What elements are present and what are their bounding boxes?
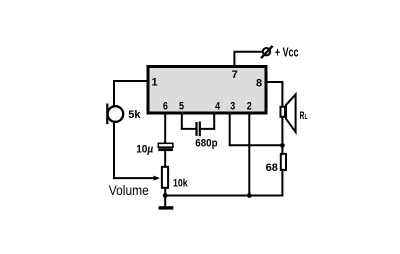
svg-text:68: 68 (266, 162, 278, 174)
resistor R3 68 (281, 145, 283, 153)
wire bottom bus (165, 195, 282, 197)
svg-text:680p: 680p (195, 138, 218, 150)
svg-text:10k: 10k (173, 178, 188, 190)
wire junction to ground (164, 196, 166, 207)
wire pin8 to speaker (266, 82, 282, 106)
svg-text:5: 5 (179, 101, 184, 113)
svg-text:Volume: Volume (109, 182, 149, 198)
wire resistor R3 to bottom bus (281, 171, 282, 196)
svg-text:1: 1 (151, 77, 157, 89)
wire pin3 to node A (230, 113, 283, 145)
wire pin6 to capacitor C1 (164, 113, 166, 144)
microphone M1 (107, 104, 123, 125)
wire speaker to node A (281, 118, 283, 145)
wire capacitor to potentiometer (164, 151, 166, 166)
wire microphone to volume arrow (114, 122, 155, 179)
capacitor C1 10u (polarized) (158, 143, 173, 151)
ground (159, 206, 174, 209)
potentiometer R2 10k (162, 167, 168, 188)
svg-text:10µ: 10µ (136, 143, 154, 155)
wire pin7 to Vcc terminal (234, 52, 263, 67)
node A junction speaker/resistor (280, 143, 285, 148)
wire pin5 to capacitor C2 (182, 113, 196, 129)
speaker LS1 (281, 94, 296, 132)
node junction below potentiometer (163, 193, 168, 198)
svg-text:7: 7 (232, 69, 238, 81)
svg-text:2: 2 (247, 101, 252, 113)
svg-text:5k: 5k (128, 109, 141, 121)
svg-text:6: 6 (163, 101, 168, 113)
capacitor C2 680p (197, 122, 200, 137)
op-amp U1 (audio IC body) (148, 67, 266, 114)
svg-text:8: 8 (256, 78, 262, 90)
wire pin2 down (248, 113, 250, 196)
wire potentiometer to ground junction (164, 188, 166, 195)
svg-text:+ Vcc: + Vcc (275, 46, 299, 60)
wire pin1 to microphone (114, 81, 147, 107)
node junction pin2 to bottom bus (247, 193, 252, 198)
wire capacitor C2 to pin4 (201, 113, 214, 129)
svg-text:L: L (305, 112, 308, 121)
svg-text:4: 4 (215, 101, 221, 113)
svg-text:3: 3 (230, 101, 235, 113)
Vcc terminal (261, 46, 273, 58)
arrowhead into potentiometer wiper (154, 176, 161, 181)
